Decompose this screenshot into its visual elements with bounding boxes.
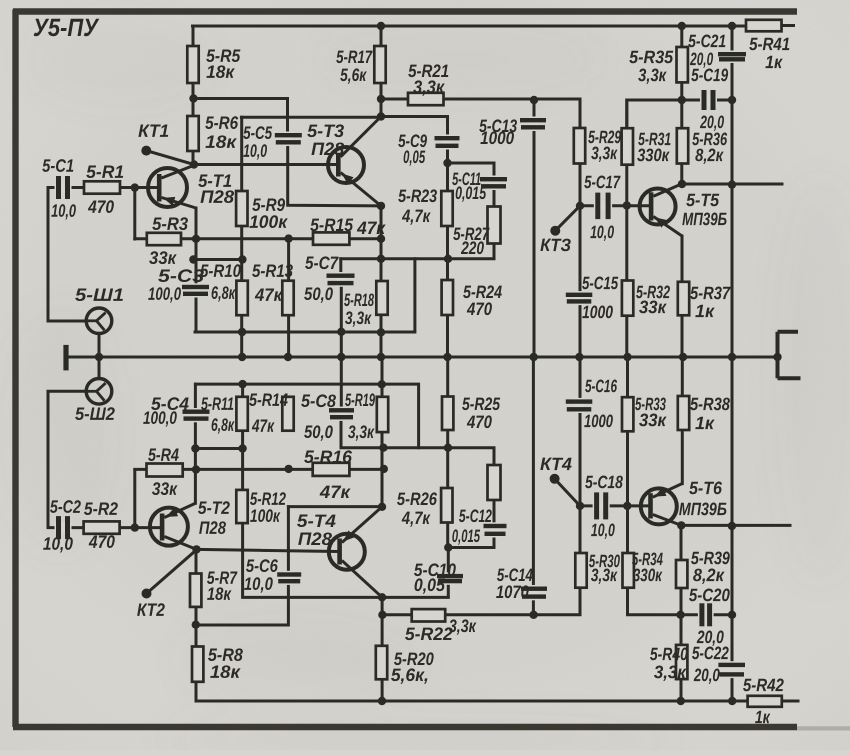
svg-text:18к: 18к: [207, 584, 232, 604]
resistor R25 (470): [442, 397, 453, 431]
svg-text:5-R17: 5-R17: [336, 47, 373, 67]
svg-text:5-C19: 5-C19: [691, 65, 728, 85]
svg-text:1к: 1к: [695, 413, 715, 433]
node: R7/R8 junction: [192, 621, 200, 629]
svg-text:33к: 33к: [639, 410, 667, 430]
svg-text:У5-ПУ: У5-ПУ: [33, 14, 100, 42]
wire: R17/T3 collector column: [380, 26, 383, 117]
node: R31 at T5 base: [623, 201, 631, 209]
resistor R41 (1к): [746, 20, 782, 32]
node: rail at C13: [530, 353, 538, 361]
wire: second R21-line segment with C19: [627, 100, 732, 129]
svg-text:10,0: 10,0: [590, 222, 614, 242]
wire: C7 bottom column: [340, 285, 343, 357]
wire: C20 link line: [681, 613, 732, 616]
svg-text:0,015: 0,015: [452, 526, 481, 546]
svg-text:5-C6: 5-C6: [246, 556, 279, 576]
svg-text:47к: 47к: [251, 416, 274, 436]
svg-text:470: 470: [466, 412, 492, 432]
node: R14 bottom: [284, 465, 292, 473]
svg-text:5-R18: 5-R18: [344, 290, 374, 310]
wire: R39/R40 column: [680, 525, 683, 701]
svg-text:КТЗ: КТЗ: [540, 235, 571, 255]
svg-text:5-R4: 5-R4: [148, 445, 179, 465]
transistor T1 (П28): [148, 165, 196, 209]
node: output tap x732 bottom: [728, 522, 736, 530]
svg-text:КТ2: КТ2: [137, 600, 165, 620]
svg-text:100,0: 100,0: [143, 408, 177, 428]
wire: T3 emitter node line: [341, 257, 448, 260]
node: rail at R37: [679, 353, 687, 361]
capacitor C18 (10,0): [593, 492, 610, 519]
resistor R40 (3,3к): [676, 645, 687, 679]
svg-text:5-R14: 5-R14: [249, 390, 288, 410]
svg-text:5-C17: 5-C17: [584, 172, 621, 192]
svg-text:33к: 33к: [152, 479, 178, 499]
wire: T1 emitter column: [195, 208, 198, 332]
node: C13 tap: [530, 96, 538, 104]
wire: R38 column: [681, 357, 684, 484]
wire: R5-R6 junction to C5 top: [194, 99, 288, 134]
node: rail at connector: [773, 353, 781, 361]
capacitor C7 (50,0): [327, 272, 355, 287]
node: T5 collector: [678, 180, 686, 188]
node: C21 at rail: [728, 22, 736, 30]
svg-text:47к: 47к: [254, 285, 283, 305]
svg-text:П28: П28: [200, 187, 234, 207]
svg-text:1к: 1к: [765, 52, 783, 72]
wire: R21 line to R29: [381, 99, 580, 129]
wire: R35 column: [680, 26, 683, 100]
svg-text:47к: 47к: [356, 218, 386, 238]
node: T6 collector: [677, 521, 685, 529]
wire: R13 column: [287, 239, 290, 357]
node: emitter-R9 right: [238, 255, 246, 263]
node: R16 right: [380, 465, 388, 473]
transistor T4 (П28): [329, 507, 382, 598]
svg-text:КТ4: КТ4: [540, 454, 572, 474]
node: bus384 at R11: [238, 380, 246, 388]
svg-text:5-C18: 5-C18: [585, 472, 623, 492]
capacitor C1 (10,0): [55, 176, 72, 199]
socket connector Ш1: [84, 308, 112, 334]
resistor R38 (1к): [678, 396, 689, 430]
wire: T1 collector line to T3 base: [194, 163, 337, 166]
node: gnd bus at R10: [238, 328, 246, 336]
svg-text:5-C21: 5-C21: [688, 31, 726, 51]
node: emitter-R9 left: [189, 255, 197, 263]
wire: T2 collector to T4 base: [197, 549, 338, 551]
node: rail at R32: [623, 353, 631, 361]
svg-text:20,0: 20,0: [693, 665, 720, 685]
svg-text:5-R25: 5-R25: [462, 394, 501, 414]
wire: C1 left lead down to socket Ш1: [48, 188, 87, 322]
node: R39/R40 at C20: [676, 611, 684, 619]
node: R40 at bottom rail: [677, 697, 685, 705]
svg-text:5-R11: 5-R11: [201, 394, 234, 414]
resistor R24 (470): [442, 280, 453, 315]
svg-text:П28: П28: [311, 139, 344, 159]
transistor T3 (П28): [328, 117, 381, 206]
wire: R4 left drop: [133, 470, 136, 528]
svg-text:18к: 18к: [205, 132, 237, 152]
node: C10/C12 tap: [444, 543, 452, 551]
capacitor C5 (10,0): [275, 132, 302, 147]
svg-text:5-R23: 5-R23: [398, 186, 437, 206]
resistor R18 (3,3к): [376, 281, 387, 315]
resistor R32 (33к): [622, 281, 633, 316]
wire: R29/C15 column: [579, 100, 582, 357]
node: T4 collector: [378, 593, 386, 601]
node: C9 bottom tap: [443, 159, 451, 167]
wire: C21/C19/C22 bus x732: [731, 26, 734, 701]
resistor R14 (47к): [282, 397, 293, 431]
resistor R7 (18к): [190, 574, 201, 607]
svg-text:П28: П28: [199, 518, 226, 538]
svg-text:4,7к: 4,7к: [401, 206, 431, 226]
svg-text:5-T3: 5-T3: [307, 121, 344, 141]
resistor R31 (330к): [622, 128, 633, 165]
svg-text:1к: 1к: [755, 707, 771, 727]
wire: middle common rail: [66, 356, 778, 359]
capacitor C10 (0,05): [437, 572, 463, 584]
capacitor C15 (1000): [566, 291, 593, 305]
svg-text:3,3к: 3,3к: [345, 308, 372, 328]
svg-text:470: 470: [87, 197, 114, 217]
node: R13 top: [284, 234, 292, 242]
svg-text:5-C5: 5-C5: [243, 123, 273, 143]
resistor R33 (33к): [622, 397, 633, 431]
resistor R28 (220): [488, 465, 501, 500]
node: rail at R13: [284, 353, 292, 361]
svg-text:6,8к: 6,8к: [211, 415, 235, 435]
resistor R1 (470): [84, 181, 120, 193]
node: T1 base: [131, 183, 139, 191]
svg-text:5-C2: 5-C2: [50, 497, 81, 517]
resistor R4 (33к): [147, 464, 183, 477]
svg-text:5-C12: 5-C12: [459, 506, 492, 526]
wire: R9/R10 column: [240, 117, 243, 357]
resistor R2 (470): [84, 521, 120, 533]
wire: ground bus y384 and drop: [195, 384, 418, 448]
svg-text:5-C20: 5-C20: [689, 585, 730, 605]
node: R22 left: [378, 611, 386, 619]
capacitor C21 (20,0): [718, 51, 746, 64]
capacitor C22 (20,0): [718, 661, 745, 678]
svg-text:МП39Б: МП39Б: [679, 499, 727, 519]
wire: emitter to R9 link: [193, 258, 242, 261]
svg-text:5,6к,: 5,6к,: [391, 665, 429, 685]
svg-text:10,0: 10,0: [591, 520, 615, 540]
svg-text:470: 470: [88, 532, 115, 552]
resistor R37 (1к): [678, 282, 689, 316]
capacitor C12 (0,015): [484, 522, 507, 537]
capacitor C14 (1070): [521, 585, 547, 600]
resistor R19 (3,3к): [377, 397, 388, 432]
wire: C13 column: [533, 100, 536, 357]
capacitor C2 (10,0): [55, 516, 72, 539]
svg-text:П28: П28: [298, 529, 332, 549]
node: rail at Ш1: [95, 353, 103, 361]
svg-text:5-C7: 5-C7: [305, 253, 339, 273]
wire: T3 collector to C9/R23: [381, 117, 448, 259]
ground (chassis) bar: [63, 345, 68, 371]
svg-text:0,05: 0,05: [403, 147, 426, 167]
svg-text:5-R38: 5-R38: [690, 394, 730, 414]
wire: R9 top feedback line: [241, 116, 381, 119]
node: R23/R27 bottom: [444, 255, 452, 263]
svg-text:5-R2: 5-R2: [84, 499, 118, 519]
resistor R8 (18к): [192, 647, 203, 682]
wire: T6 base line: [580, 504, 648, 507]
svg-text:3,3к: 3,3к: [591, 143, 618, 163]
svg-text:10,0: 10,0: [243, 141, 267, 161]
wire: T5 emitter / R37 column: [681, 236, 684, 357]
node: T2 base: [131, 523, 139, 531]
wire: ground bus y332 and riser: [195, 259, 415, 332]
wire: emitter to R12 link: [195, 447, 242, 450]
svg-text:5-R22: 5-R22: [405, 624, 453, 644]
wire: T4 emitter line: [288, 505, 382, 508]
svg-text:5-C22: 5-C22: [692, 643, 729, 663]
resistor R21 (3,3к): [408, 93, 444, 105]
node: rail at x732: [728, 353, 736, 361]
resistor R9 (100к): [236, 191, 247, 226]
node: KT3 tap on T5 base: [576, 202, 584, 210]
resistor R23 (4,7к): [441, 191, 452, 226]
svg-text:5-T4: 5-T4: [297, 511, 336, 531]
wire: C9-C11 link: [448, 163, 495, 259]
svg-text:470: 470: [466, 299, 492, 319]
wire: R3/R15 line: [135, 237, 381, 240]
svg-text:1000: 1000: [480, 128, 514, 148]
wire: C5 bottom to T3 emitter line: [288, 144, 381, 206]
svg-text:3,3к: 3,3к: [449, 616, 477, 636]
wire: T2 emitter column: [194, 384, 197, 503]
wire: KT4 test lead: [555, 479, 580, 506]
svg-text:100,0: 100,0: [148, 284, 181, 304]
wire: T4 emitter node line: [341, 419, 494, 547]
resistor R12 (100к): [236, 490, 247, 523]
wire: C10 column: [447, 548, 450, 598]
svg-text:5-R15: 5-R15: [310, 215, 354, 235]
svg-text:МП39Б: МП39Б: [682, 209, 727, 229]
node: R3/R15 at emitter: [192, 235, 200, 243]
node: R35 top at rail: [678, 22, 686, 30]
resistor R42 (1к): [748, 696, 782, 707]
svg-text:18к: 18к: [210, 662, 241, 682]
svg-text:18к: 18к: [206, 62, 235, 82]
capacitor C9 (0,05): [435, 135, 460, 150]
capacitor C11 (0,015): [480, 176, 507, 191]
resistor R27 (220): [488, 207, 501, 244]
svg-text:5-R37: 5-R37: [690, 283, 731, 303]
node: C19-C21 junction: [728, 96, 736, 104]
svg-text:330к: 330к: [633, 565, 663, 585]
wire: C8 top column: [340, 357, 343, 408]
capacitor C6 (10,0): [277, 571, 301, 585]
node: rail at R24: [443, 353, 451, 361]
bottom border faint continuation: [797, 726, 850, 730]
node: gnd bus at C7: [337, 328, 345, 336]
svg-text:5-C1: 5-C1: [42, 156, 74, 176]
wire: KT2 test lead: [147, 550, 197, 594]
test point KT2: [142, 589, 152, 599]
svg-text:5-R6: 5-R6: [205, 113, 239, 133]
svg-text:33к: 33к: [149, 248, 177, 268]
resistor R26 (4,7к): [441, 488, 452, 523]
svg-text:100к: 100к: [250, 506, 281, 526]
node: T1 collector: [190, 160, 198, 168]
node: R5-R6 junction: [189, 94, 197, 102]
node: R17 top at rail: [377, 22, 385, 30]
svg-text:5-C8: 5-C8: [301, 391, 336, 411]
resistor R5 (18к): [187, 46, 198, 83]
resistor R22 (3,3к): [412, 609, 446, 621]
svg-text:1070: 1070: [496, 582, 529, 602]
capacitor C13 (1000): [520, 117, 546, 132]
svg-text:1000: 1000: [582, 302, 613, 322]
resistor R34 (330к): [623, 553, 634, 588]
svg-text:10,0: 10,0: [43, 534, 73, 554]
wire: R22 line and R30/C16 column: [382, 357, 580, 615]
node: C20-C22 junction: [728, 611, 736, 619]
capacitor C4 (100,0): [183, 408, 210, 422]
node: R21 at R17 column: [377, 95, 385, 103]
svg-text:8,2к: 8,2к: [695, 145, 724, 165]
wire: T3 emitter / R18 column: [380, 206, 383, 357]
node: R20 at bottom rail: [378, 697, 386, 705]
svg-text:8,2к: 8,2к: [693, 565, 725, 585]
wire: R3 left drop from base node: [133, 188, 136, 239]
transistor T6 (МП39Б): [641, 484, 682, 526]
node: T3 collector: [377, 112, 385, 120]
resistor R10 (6,8к): [236, 281, 247, 316]
wire: socket Ш1 to rail: [98, 333, 101, 357]
node: emitter-R12 right: [238, 444, 246, 452]
wire: T4/R19 column: [381, 357, 384, 507]
svg-text:1000: 1000: [584, 411, 613, 431]
capacitor C3 (100,0): [182, 283, 209, 297]
node: R4 at emitter: [192, 465, 200, 473]
svg-text:5-T6: 5-T6: [689, 478, 723, 498]
resistor R17 (5,6к): [374, 46, 385, 83]
svg-text:100к: 100к: [249, 212, 288, 232]
capacitor C16 (1000): [566, 398, 593, 413]
svg-text:КТ1: КТ1: [138, 121, 169, 141]
node: rail at C15: [575, 353, 583, 361]
svg-text:3,3к: 3,3к: [413, 77, 445, 97]
socket connector Ш2: [84, 379, 112, 405]
resistor R29 (3,3к): [574, 128, 585, 164]
svg-text:50,0: 50,0: [304, 422, 333, 442]
svg-text:3,3к: 3,3к: [348, 422, 375, 442]
wire: R24 column: [446, 259, 449, 357]
svg-text:5-Ш1: 5-Ш1: [75, 285, 124, 305]
wire: R31/R32 column: [625, 100, 628, 357]
resistor R11 (6,8к): [236, 397, 247, 431]
svg-text:50,0: 50,0: [304, 284, 333, 304]
node: output tap x732 top: [728, 180, 736, 188]
resistor R35 (3,3к): [677, 47, 688, 82]
node: rail at R10: [238, 353, 246, 361]
wire: R25/R26 column: [446, 357, 449, 548]
resistor R39 (8,2к): [676, 560, 687, 588]
capacitor C17 (10,0): [594, 193, 612, 220]
svg-text:5-R26: 5-R26: [397, 489, 438, 509]
node: T2 collector: [192, 545, 200, 553]
resistor R6 (18к): [187, 116, 198, 151]
test point KT3: [550, 226, 560, 236]
svg-text:10,0: 10,0: [51, 201, 76, 221]
svg-text:5-R41: 5-R41: [749, 34, 790, 54]
resistor R20 (5,6к): [376, 646, 387, 680]
node: rail at C7: [337, 353, 345, 361]
wire: T5 collector output line: [682, 183, 782, 186]
wire: KT3 test lead: [555, 206, 580, 231]
svg-text:10,0: 10,0: [244, 574, 273, 594]
resistor R36 (8,2к): [677, 128, 688, 163]
wire: T4 collector / R20 column: [381, 597, 384, 701]
capacitor C20 (20,0): [698, 603, 714, 626]
svg-text:5-C16: 5-C16: [585, 376, 618, 396]
svg-text:5-R42: 5-R42: [743, 675, 784, 695]
wire: R7/R8 column: [195, 549, 198, 701]
svg-text:330к: 330к: [637, 145, 670, 165]
wire: top supply rail: [193, 24, 794, 28]
node: C22 at bottom rail: [728, 697, 736, 705]
node: T4 emitter: [378, 503, 386, 511]
test point KT1: [141, 146, 151, 156]
resistor R30 (3,3к): [575, 553, 586, 588]
svg-text:5-R1: 5-R1: [86, 162, 124, 182]
svg-text:5-R35: 5-R35: [629, 47, 674, 67]
output connector symbol (right): [778, 332, 801, 378]
resistor R3 (33к): [147, 233, 181, 245]
resistor R16 (47к): [313, 463, 350, 476]
svg-text:5-R19: 5-R19: [345, 390, 375, 410]
wire: C7 top drop: [339, 259, 342, 274]
wire: input coupling to T1 base: [70, 186, 157, 189]
svg-text:5-R3: 5-R3: [152, 214, 188, 234]
wire: R11/R12 column and y597 line: [243, 384, 449, 597]
transistor T5 (МП39Б): [640, 184, 682, 236]
node: bus384 at R19: [378, 380, 386, 388]
wire: T6 collector output line: [681, 524, 790, 527]
node: T3 emitter: [377, 202, 385, 210]
node: R36/C19 junction: [678, 96, 686, 104]
wire: bottom rail: [196, 700, 798, 703]
node: R15 right: [377, 235, 385, 243]
resistor R15 (47к): [313, 232, 349, 244]
svg-text:5-C15: 5-C15: [582, 273, 619, 293]
svg-text:5-T2: 5-T2: [198, 498, 230, 518]
wire: R4/R16 line: [135, 468, 384, 471]
resistor R13 (47к): [282, 281, 293, 316]
node: gnd bus at R18: [377, 328, 385, 336]
svg-text:0,05: 0,05: [414, 575, 446, 595]
svg-text:5-R13: 5-R13: [252, 261, 293, 281]
svg-text:3,3к: 3,3к: [638, 65, 667, 85]
transistor T2 (П28): [150, 503, 197, 549]
capacitor C19 (20,0): [700, 90, 717, 110]
svg-text:4,7к: 4,7к: [401, 508, 431, 528]
svg-text:5-Ш2: 5-Ш2: [75, 404, 115, 424]
svg-text:5-R40: 5-R40: [650, 644, 688, 664]
node: KT4 tap on T6 base: [576, 502, 584, 510]
svg-text:1к: 1к: [695, 301, 715, 321]
wire: C2 to T2 base: [70, 526, 160, 529]
